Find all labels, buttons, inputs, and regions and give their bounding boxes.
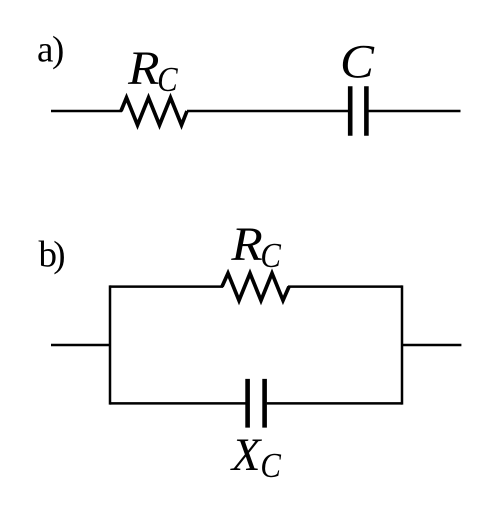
wire xyxy=(187,110,348,113)
svg-text:C: C xyxy=(260,447,281,485)
svg-text:C: C xyxy=(260,237,281,275)
wire bottom edge right xyxy=(267,402,402,405)
wire left side of loop xyxy=(109,285,112,404)
wire right stub xyxy=(402,344,461,347)
capacitor C plates xyxy=(348,86,353,136)
wire xyxy=(368,110,460,113)
svg-text:a: a xyxy=(37,30,53,71)
resistor R_C xyxy=(121,98,187,125)
svg-text:C: C xyxy=(157,61,178,99)
svg-text:X: X xyxy=(230,429,263,481)
wire top edge right xyxy=(288,285,402,288)
svg-text:R: R xyxy=(230,218,262,271)
svg-text:C: C xyxy=(340,35,375,88)
wire top edge left xyxy=(110,285,223,288)
svg-text:): ) xyxy=(53,234,65,275)
wire bottom edge left xyxy=(110,402,246,405)
capacitor X_C plates xyxy=(245,379,250,428)
wire xyxy=(51,110,122,113)
wire left stub xyxy=(51,344,110,347)
resistor R_C (b) xyxy=(222,273,289,300)
wire right side of loop xyxy=(401,285,404,404)
svg-text:R: R xyxy=(127,42,159,95)
svg-text:): ) xyxy=(52,30,64,71)
